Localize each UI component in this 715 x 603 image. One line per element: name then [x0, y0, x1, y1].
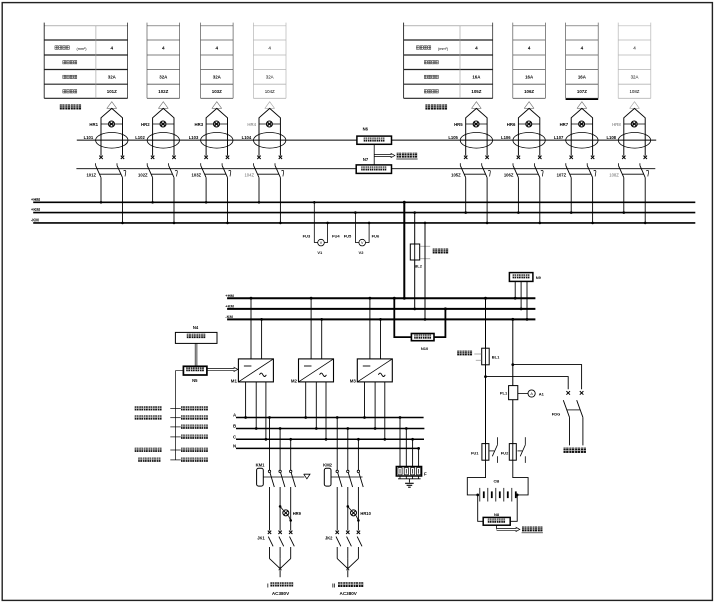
svg-text:M1: M1 — [231, 378, 238, 383]
wire N4 to N5 double link — [195, 343, 197, 366]
svg-text:AC380V: AC380V — [272, 591, 290, 596]
svg-text:V2: V2 — [359, 250, 365, 255]
surge protector F — [396, 416, 427, 479]
svg-text:106Z: 106Z — [504, 173, 514, 178]
contacts of KM2 — [336, 416, 363, 530]
bus lower +KM — [225, 304, 535, 309]
bus +HM — [31, 197, 695, 202]
fuse terminals 107Z — [570, 156, 595, 159]
current loop L105 — [448, 133, 492, 149]
svg-text:L108: L108 — [606, 135, 616, 140]
battery CB — [467, 460, 528, 501]
feeder 105Z output branch — [466, 102, 487, 156]
svg-text:101Z: 101Z — [86, 173, 96, 178]
table values right group — [471, 45, 639, 94]
feeder table column 108Z — [618, 23, 651, 99]
battery inspection unit N8 — [478, 495, 518, 525]
svg-text:103Z: 103Z — [192, 173, 202, 178]
svg-text:16A: 16A — [525, 74, 534, 79]
feeder table column 103Z — [201, 23, 234, 99]
svg-text:HR8: HR8 — [612, 122, 621, 127]
wire 107Z to bus — [570, 178, 594, 225]
hall sensor BL2 on +KM dropper — [410, 211, 448, 310]
bus phase B — [233, 424, 424, 429]
indicator lamp HR4 — [247, 121, 272, 127]
svg-text:(mm²): (mm²) — [76, 47, 87, 51]
arrow N5 to module M1 — [207, 367, 238, 372]
indicator lamp HR10 — [347, 505, 372, 522]
label I AC input — [267, 582, 293, 596]
rectifier module M2 — [291, 297, 334, 441]
svg-text:FU5: FU5 — [344, 233, 352, 238]
svg-text:4: 4 — [111, 45, 114, 50]
shunt PL1 with ammeter A1 — [500, 386, 545, 444]
indicator lamp HR7 — [560, 121, 585, 127]
svg-text:4: 4 — [528, 45, 531, 50]
svg-text:JK1: JK1 — [257, 535, 265, 540]
svg-text:JK2: JK2 — [325, 535, 333, 540]
discharge tap wires — [486, 365, 582, 390]
svg-text:32A: 32A — [213, 74, 222, 79]
svg-text:-KM: -KM — [225, 314, 233, 319]
voltage acquisition unit N9 — [509, 273, 541, 321]
svg-text:+KM: +KM — [31, 207, 40, 212]
feeder 108Z output branch — [624, 102, 645, 156]
svg-text:101Z: 101Z — [107, 89, 117, 94]
svg-text:F: F — [424, 471, 427, 476]
svg-text:108Z: 108Z — [629, 89, 639, 94]
monitor module N4 — [175, 325, 217, 343]
svg-text:102Z: 102Z — [158, 89, 168, 94]
svg-text:+HM: +HM — [31, 197, 40, 202]
current loop L102 — [135, 133, 179, 149]
svg-text:HR5: HR5 — [454, 122, 463, 127]
wire battery positive — [484, 365, 487, 444]
wire branch-insulation-detection line — [76, 168, 655, 170]
svg-text:107Z: 107Z — [557, 173, 567, 178]
feeder 104Z output branch — [259, 102, 280, 156]
svg-text:L101: L101 — [84, 135, 94, 140]
wire 103Z to bus — [205, 178, 229, 225]
input breaker JK2 — [325, 531, 362, 559]
fuse terminals 104Z — [257, 156, 282, 159]
bus +KM — [31, 207, 695, 212]
breaker 107Z — [557, 163, 596, 177]
indicator lamp HR1 — [89, 121, 114, 127]
feeder table right header column — [404, 23, 493, 99]
svg-text:FU2: FU2 — [501, 450, 509, 455]
svg-text:L106: L106 — [501, 135, 511, 140]
linkage triangle — [304, 474, 310, 479]
svg-text:105Z: 105Z — [471, 89, 481, 94]
svg-text:FDG: FDG — [552, 411, 560, 416]
table values left group — [107, 45, 275, 94]
svg-text:(mm²): (mm²) — [438, 47, 449, 51]
switch detection unit N6 — [357, 126, 392, 144]
svg-text:FU3: FU3 — [303, 233, 311, 238]
svg-text:N10: N10 — [421, 346, 429, 351]
bus phase A — [233, 413, 424, 418]
svg-text:V1: V1 — [317, 250, 323, 255]
svg-text:32A: 32A — [631, 74, 639, 79]
svg-text:102Z: 102Z — [138, 173, 148, 178]
svg-text:BL1: BL1 — [492, 355, 500, 360]
breaker 103Z — [192, 163, 231, 177]
breaker 105Z — [451, 163, 490, 177]
integrated sampling unit N5 — [183, 366, 207, 383]
voltmeter V2 with fuses FU5 FU6 — [344, 211, 380, 255]
bus neutral N — [233, 444, 419, 449]
svg-text:HR10: HR10 — [360, 511, 371, 516]
fuse terminals 102Z — [151, 156, 176, 159]
svg-text:L102: L102 — [135, 135, 145, 140]
svg-text:+HM: +HM — [225, 293, 234, 298]
fuse terminals 108Z — [622, 156, 647, 159]
svg-text:-KM: -KM — [31, 218, 39, 223]
svg-text:L104: L104 — [242, 135, 252, 140]
rectifier module M1 — [231, 297, 274, 441]
svg-text:KM2: KM2 — [323, 462, 333, 467]
svg-text:HR1: HR1 — [89, 122, 98, 127]
branch insulation detection unit — [356, 165, 391, 174]
feeder table column 106Z — [513, 23, 546, 99]
svg-text:KM1: KM1 — [256, 462, 266, 467]
contactor KM1 — [256, 462, 305, 486]
wire 106Z to bus — [517, 178, 541, 225]
label closing-bus output (he mu shu chu) — [60, 104, 81, 109]
wire 108Z to bus — [623, 178, 647, 225]
fuse terminals 105Z — [464, 156, 489, 159]
svg-text:N5: N5 — [192, 378, 198, 383]
fuse terminals 101Z — [99, 156, 124, 159]
svg-text:N6: N6 — [363, 126, 369, 131]
indicator lamp HR9 — [279, 505, 302, 522]
current loop L106 — [501, 133, 545, 149]
fuse FU1 — [471, 437, 497, 463]
svg-text:N4: N4 — [193, 325, 199, 330]
svg-text:HR4: HR4 — [247, 122, 256, 127]
fuse terminals 103Z — [204, 156, 229, 159]
bus phase C — [233, 434, 424, 439]
svg-text:107Z: 107Z — [577, 89, 587, 94]
svg-text:L105: L105 — [448, 135, 458, 140]
converging input wires JK2 — [337, 559, 358, 578]
svg-text:AC380V: AC380V — [340, 591, 358, 596]
discharge circuit breaker FDG — [552, 391, 586, 453]
svg-text:32A: 32A — [159, 74, 168, 79]
svg-text:103Z: 103Z — [212, 89, 222, 94]
fuse terminals 106Z — [517, 156, 542, 159]
wire switch-detection line — [77, 139, 656, 141]
rectifier module M3 — [350, 297, 393, 441]
svg-text:FU6: FU6 — [372, 233, 380, 238]
feeder table column 104Z — [253, 23, 286, 99]
svg-text:32A: 32A — [266, 74, 274, 79]
wire 104Z to bus — [258, 178, 282, 225]
contacts of KM1 — [268, 416, 295, 530]
svg-text:FU4: FU4 — [332, 233, 340, 238]
svg-text:A1: A1 — [539, 392, 545, 397]
feeder 107Z output branch — [571, 102, 592, 156]
indicator lamp HR8 — [612, 121, 637, 127]
indicator lamp HR5 — [454, 121, 479, 127]
svg-text:4: 4 — [268, 45, 271, 50]
label II AC input — [332, 582, 363, 596]
bus lower +HM — [225, 293, 535, 298]
feeder table column 102Z — [147, 23, 180, 99]
svg-text:104Z: 104Z — [265, 89, 275, 94]
svg-text:106Z: 106Z — [524, 89, 534, 94]
svg-text:32A: 32A — [108, 74, 117, 79]
ground — [405, 479, 414, 487]
thick underline below 107Z cell — [566, 98, 599, 100]
breaker 108Z — [609, 163, 648, 177]
bus lower -KM — [225, 314, 535, 319]
arrow N8 to main monitor — [497, 525, 543, 533]
wire +HM dropper — [403, 201, 406, 300]
wire 101Z to bus — [100, 178, 124, 225]
hall sensor BL1 on battery positive — [457, 297, 500, 365]
indicator lamp HR6 — [507, 121, 532, 127]
svg-text:+KM: +KM — [225, 304, 234, 309]
contactor KM2 — [323, 462, 362, 486]
wire 105Z to bus — [464, 178, 488, 225]
wire battery negative from -KM — [511, 318, 514, 386]
svg-text:N8: N8 — [494, 512, 500, 517]
fuse FU2 — [501, 437, 526, 463]
svg-text:16A: 16A — [578, 74, 587, 79]
sampling signal list — [135, 371, 208, 462]
input breaker JK1 — [257, 531, 294, 559]
voltmeter V1 with fuses FU3 FU4 — [303, 201, 341, 255]
svg-text:104Z: 104Z — [244, 173, 254, 178]
svg-text:BL2: BL2 — [414, 263, 422, 268]
svg-text:108Z: 108Z — [609, 173, 619, 178]
indicator lamp HR2 — [141, 121, 166, 127]
breaker 102Z — [138, 163, 177, 177]
converging input wires JK1 — [270, 559, 291, 578]
svg-text:HR3: HR3 — [194, 122, 203, 127]
breaker 106Z — [504, 163, 543, 177]
svg-text:L107: L107 — [554, 135, 564, 140]
svg-text:4: 4 — [475, 45, 478, 50]
svg-text:L103: L103 — [189, 135, 199, 140]
current loop L103 — [189, 133, 233, 149]
svg-text:PL1: PL1 — [500, 391, 508, 396]
svg-text:4: 4 — [216, 45, 219, 50]
svg-text:16A: 16A — [472, 74, 481, 79]
wire N6 to N7 — [373, 144, 375, 165]
indicator lamp HR3 — [194, 121, 219, 127]
arrow N7 to main monitor — [363, 153, 418, 162]
svg-text:HR2: HR2 — [141, 122, 150, 127]
current loop L101 — [84, 133, 128, 149]
svg-text:HR6: HR6 — [507, 122, 516, 127]
svg-text:4: 4 — [581, 45, 584, 50]
breaker 104Z — [244, 163, 283, 177]
svg-text:N9: N9 — [536, 275, 542, 280]
feeder 101Z output branch — [101, 102, 123, 156]
breaker 101Z — [86, 163, 125, 177]
bus -KM — [31, 218, 695, 223]
svg-text:HR9: HR9 — [293, 511, 302, 516]
wire -KM dropper — [424, 222, 427, 321]
svg-text:HR7: HR7 — [560, 122, 569, 127]
current loop L108 — [606, 133, 650, 149]
svg-text:N: N — [233, 444, 236, 449]
svg-text:4: 4 — [162, 45, 165, 50]
svg-text:4: 4 — [633, 45, 636, 50]
svg-text:FU1: FU1 — [471, 450, 479, 455]
svg-text:M3: M3 — [350, 378, 357, 383]
wire 102Z to bus — [151, 178, 175, 225]
feeder 102Z output branch — [153, 102, 174, 156]
feeder 103Z output branch — [206, 102, 227, 156]
svg-text:105Z: 105Z — [451, 173, 461, 178]
voltage dropper unit N10 — [393, 297, 447, 351]
svg-text:B: B — [233, 424, 236, 429]
feeder table left header column — [44, 23, 127, 99]
svg-text:CB: CB — [494, 478, 500, 483]
feeder table column 107Z — [566, 23, 599, 99]
svg-text:M2: M2 — [291, 378, 298, 383]
feeder 106Z output branch — [518, 102, 539, 156]
svg-text:N7: N7 — [363, 157, 369, 162]
current loop L104 — [242, 133, 286, 149]
label control-bus output (kong mu shu chu) — [425, 104, 447, 109]
current loop L107 — [554, 133, 598, 149]
